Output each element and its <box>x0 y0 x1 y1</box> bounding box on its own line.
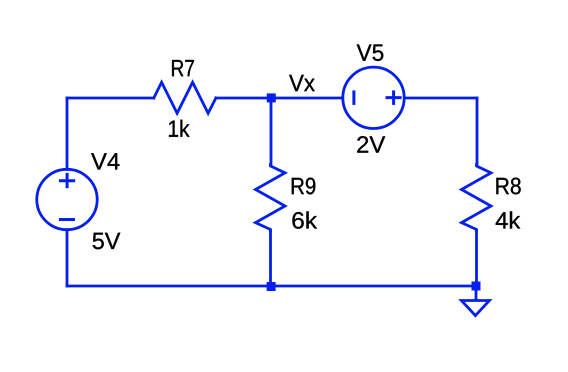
wire node Vx to V5 <box>271 97 342 100</box>
label R8 <box>496 178 520 195</box>
wire V5 to right corner <box>404 97 477 100</box>
voltage source V5 <box>343 67 404 128</box>
V4 plus sign <box>59 173 75 188</box>
wire top-left horizontal <box>67 97 154 100</box>
wire top-left vertical <box>66 98 69 169</box>
label V4 <box>91 153 119 169</box>
label node Vx <box>289 75 315 91</box>
resistor R8 <box>462 165 492 232</box>
wire ground stem <box>475 291 478 300</box>
label R7 <box>172 60 194 76</box>
bottom middle junction <box>267 282 276 291</box>
ground <box>461 301 489 316</box>
resistor R7 <box>154 82 216 113</box>
wire node Vx down to R9 <box>270 98 273 165</box>
V5 plus sign <box>386 90 402 105</box>
wire V4 bottom vertical <box>66 230 69 286</box>
label R9 <box>292 178 315 195</box>
bottom right junction <box>472 282 481 291</box>
V4 minus sign <box>59 218 75 221</box>
label 1k <box>169 120 190 137</box>
label 6k <box>292 211 317 228</box>
wire R9 to bottom node <box>269 231 272 286</box>
wire R7 to node Vx <box>216 97 271 100</box>
label V5 <box>357 44 384 60</box>
wire right vertical down to R8 <box>476 98 479 165</box>
label 2V <box>357 136 385 152</box>
label 4k <box>496 211 521 228</box>
V5 minus sign <box>352 90 355 105</box>
node Vx junction <box>267 93 276 102</box>
wire R8 to ground node <box>475 231 478 286</box>
label 5V <box>93 233 121 249</box>
voltage source V4 <box>37 169 97 229</box>
resistor R9 <box>256 165 286 232</box>
wire bottom horizontal <box>67 285 477 288</box>
